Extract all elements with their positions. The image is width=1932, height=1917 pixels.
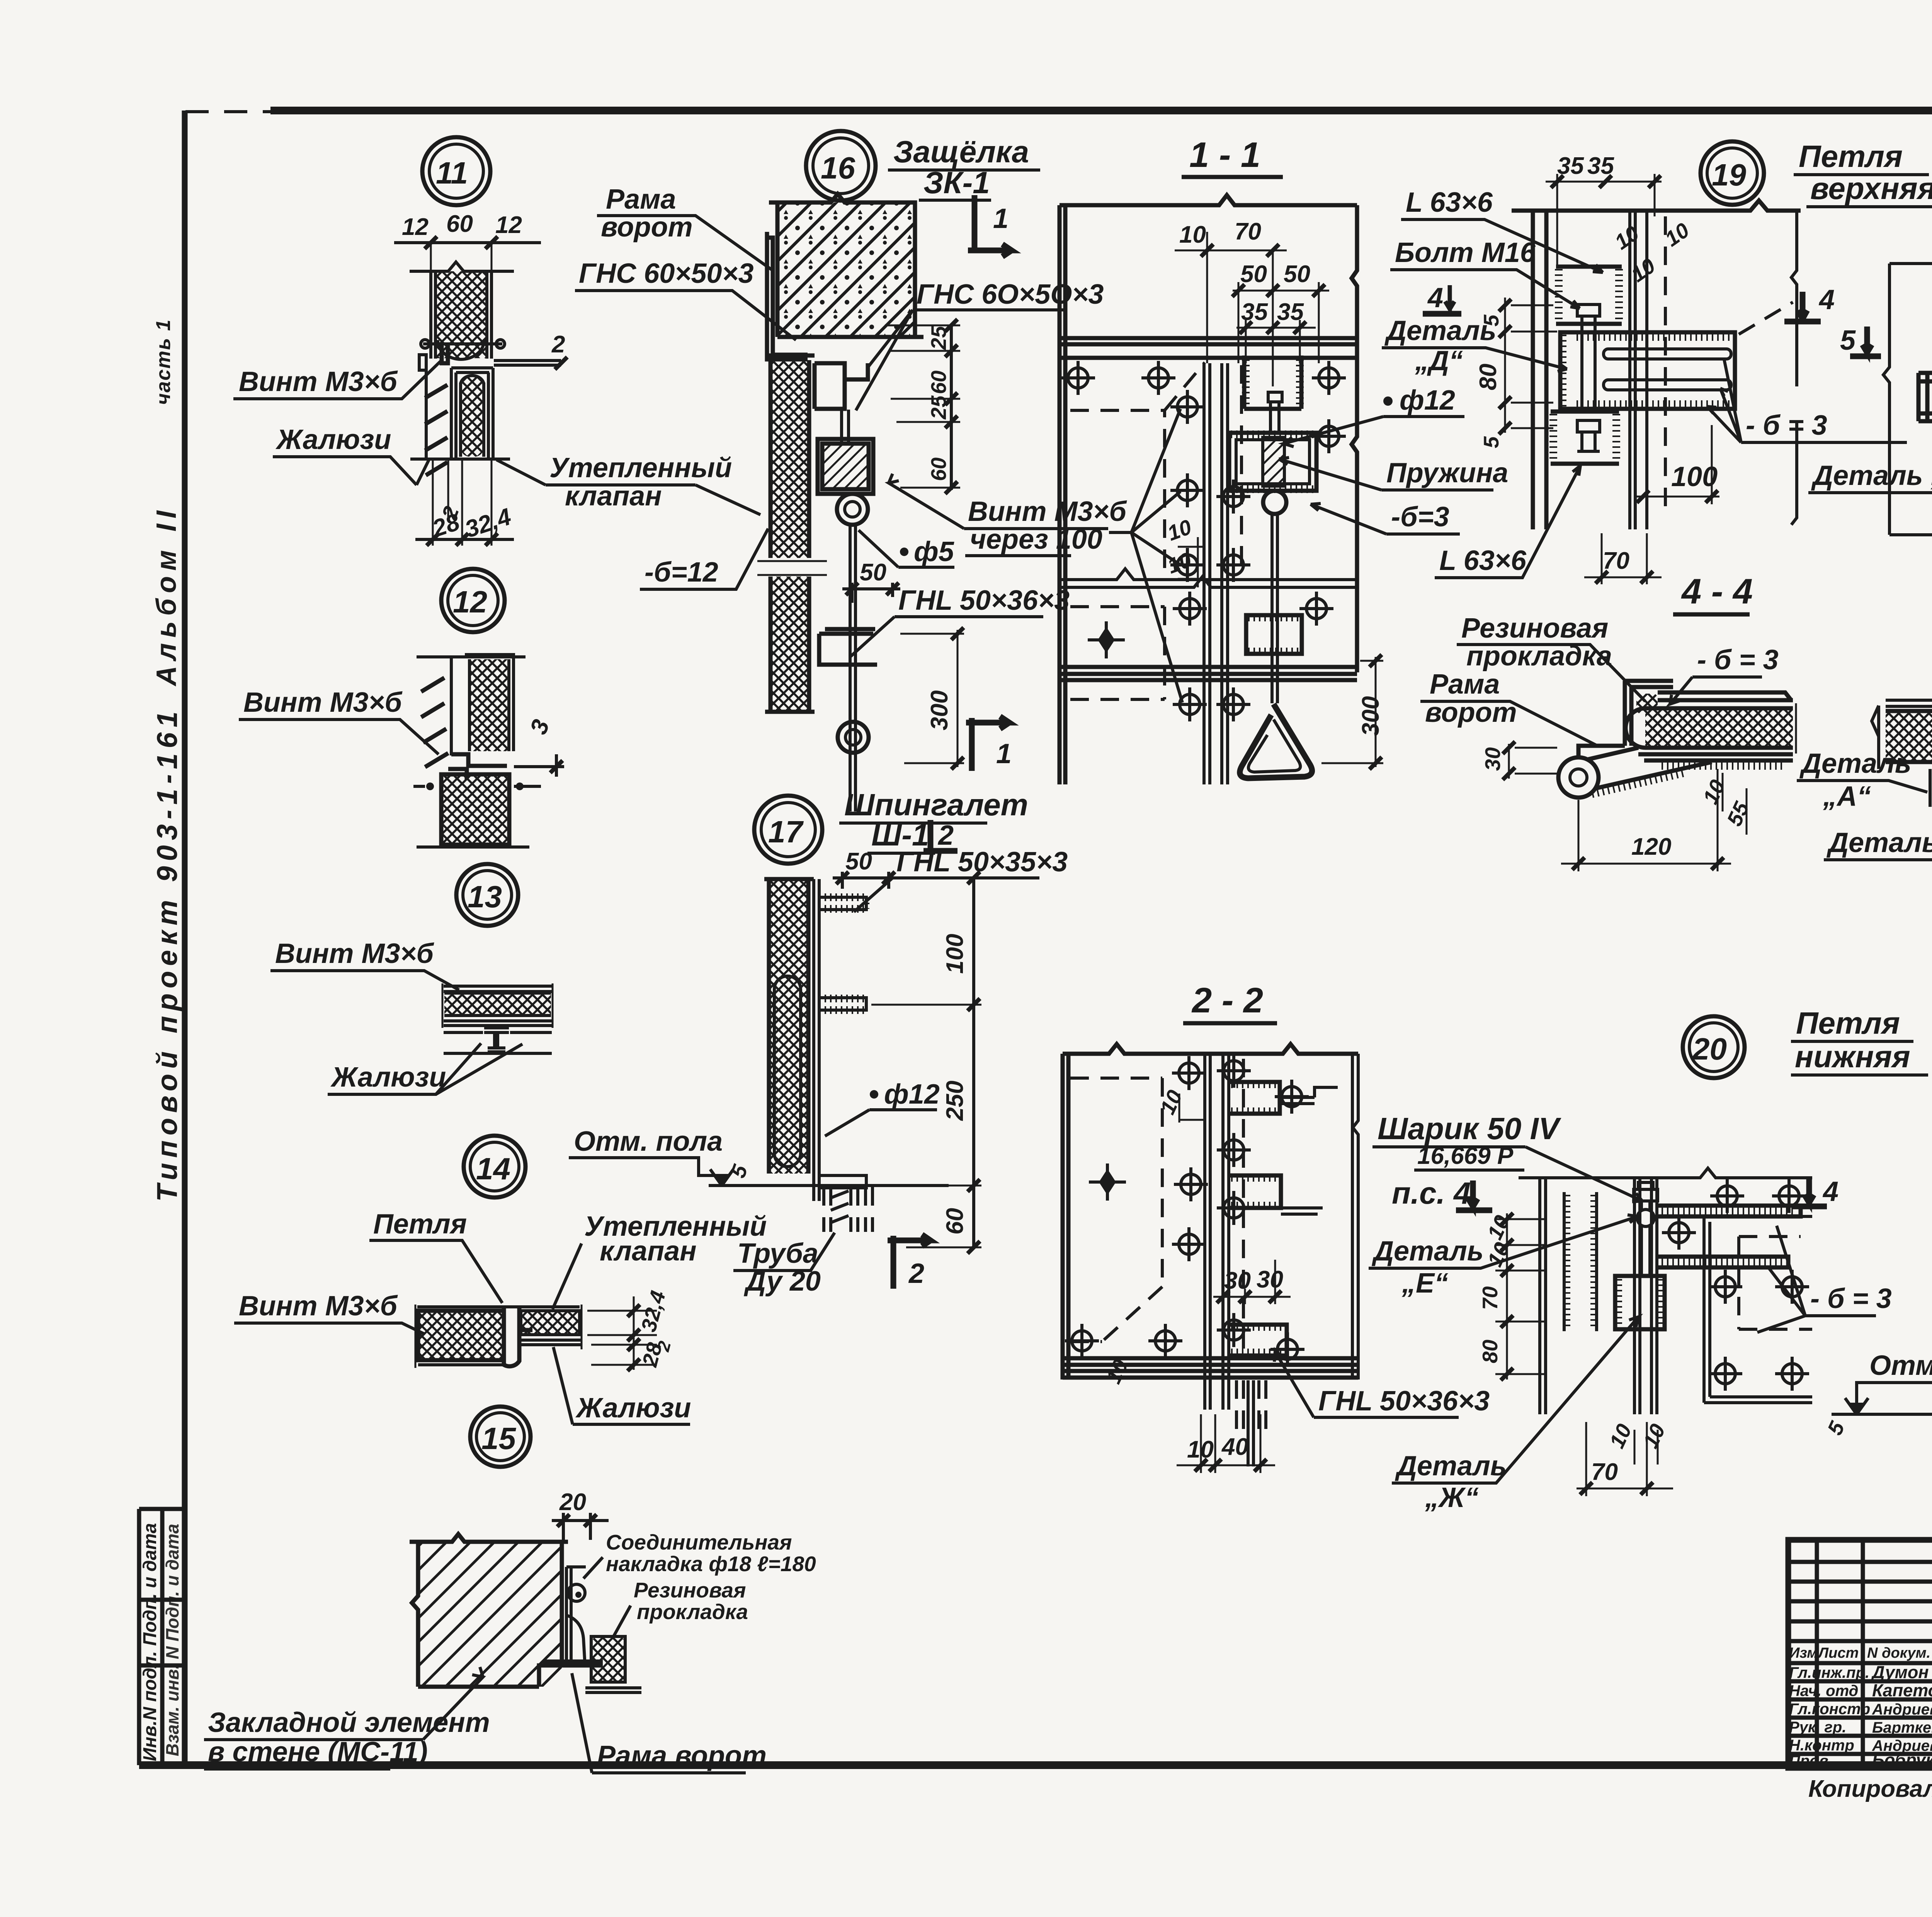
svg-text:300: 300: [926, 691, 953, 730]
shpingalet rod: [814, 879, 819, 1201]
svg-text:Закладной элемент: Закладной элемент: [208, 1707, 490, 1738]
4-4 insulated band: [1645, 708, 1793, 748]
svg-text:„Ж“: „Ж“: [1425, 1482, 1479, 1513]
svg-text:2: 2: [937, 820, 954, 851]
detail 16 insulated door panel lower: [770, 577, 809, 712]
dim 300 (d16): [900, 630, 964, 767]
svg-text:Лист: Лист: [1817, 1645, 1859, 1661]
section mark 2 (top, d17): [923, 820, 957, 851]
section 1-1 title: [1060, 135, 1508, 784]
detail 11 leaf top sheet with section 2 tick: [494, 361, 561, 365]
lower serrated box (d19): [1551, 412, 1619, 464]
latch bolt screw: [842, 410, 849, 444]
detail 15 callout circle: [204, 1407, 816, 1773]
svg-text:Гл.инж.пр.: Гл.инж.пр.: [1789, 1664, 1869, 1681]
svg-text:Инв.N подл. Подп. и дата: Инв.N подл. Подп. и дата: [140, 1523, 160, 1761]
svg-text:Рама ворот: Рама ворот: [597, 1740, 767, 1771]
detail 14 right dims 28 32 4: [587, 1296, 657, 1370]
d20 lower block Деталь Ж: [1615, 1276, 1665, 1329]
svg-text:клапан: клапан: [600, 1236, 697, 1267]
detail 12 callout circle: [239, 569, 564, 847]
svg-text:Капетов: Капетов: [1872, 1681, 1932, 1700]
detail 16 concrete lintel block: [777, 202, 915, 337]
floor line: [713, 1184, 949, 1187]
detail 17 callout circle: [569, 788, 1068, 1297]
4-4 hinge knuckle: [1558, 757, 1599, 798]
latch lower bracket: [1246, 615, 1302, 654]
detail 12 top line: [417, 655, 526, 658]
svg-text:Отм. пола: Отм. пола: [574, 1126, 723, 1157]
2-2 stile verticals: [1205, 1054, 1229, 1410]
sheet frame bottom border: [139, 1761, 1932, 1769]
svg-text:30: 30: [1481, 747, 1505, 771]
svg-text:Винт М3×б: Винт М3×б: [275, 938, 435, 969]
svg-text:-б=3: -б=3: [1391, 502, 1449, 532]
sheet frame left border: [182, 111, 188, 1765]
svg-text:Резиновая: Резиновая: [1461, 613, 1608, 644]
svg-text:80: 80: [1475, 364, 1502, 390]
detail 19 center stile lines: [1630, 211, 1647, 529]
svg-text:-б=12: -б=12: [645, 557, 718, 588]
svg-text:Рама: Рама: [1430, 669, 1500, 700]
latch channel profile: [815, 363, 868, 409]
ring lower: [838, 722, 869, 753]
view 21 left edge: [1883, 264, 1889, 535]
svg-text:накладка ф18 ℓ=180: накладка ф18 ℓ=180: [606, 1552, 816, 1576]
right dim chain 25 60 25 60: [950, 324, 953, 490]
2-2 pin bracket lower: [1229, 1325, 1287, 1356]
spring (hatched screw): [1263, 437, 1284, 486]
svg-text:Жалюзи: Жалюзи: [575, 1393, 691, 1424]
svg-text:Пров.: Пров.: [1789, 1752, 1833, 1769]
d20 top edge: [1519, 1168, 1812, 1178]
detail 12 jalousie diagonal slats: [421, 678, 448, 767]
svg-text:70: 70: [1591, 1459, 1618, 1485]
handle bar: [1918, 373, 1932, 421]
2-2 dashed pipe below: [1236, 1380, 1266, 1434]
latch slide block (hatched): [822, 444, 869, 489]
svg-text:15: 15: [481, 1421, 516, 1456]
svg-text:Шарик 50 IV: Шарик 50 IV: [1378, 1111, 1561, 1146]
section mark 2 (bottom, d17): [888, 1235, 930, 1289]
2-2 bolts: [1172, 1056, 1206, 1090]
svg-text:Жалюзи: Жалюзи: [275, 424, 391, 455]
svg-text:Петля: Петля: [373, 1209, 467, 1240]
section 1-1 top rail band: [1060, 338, 1357, 358]
detail 11 screw pin: [442, 344, 448, 363]
svg-text:20: 20: [1692, 1032, 1727, 1066]
svg-text:19: 19: [1712, 158, 1746, 192]
svg-text:L 63×6: L 63×6: [1406, 187, 1493, 218]
svg-text:„А“: „А“: [1823, 781, 1871, 812]
svg-text:60: 60: [942, 1208, 968, 1235]
view 21 top edge: [1889, 254, 1932, 264]
section mark 1 (bottom): [966, 716, 1009, 771]
2-2 pin bracket upper: [1229, 1082, 1280, 1114]
ring upper: [837, 494, 868, 525]
latch rod: [1272, 514, 1277, 703]
panel break squiggle: [757, 561, 827, 575]
detail 12 Z profile joint: [448, 754, 507, 780]
svg-text:5: 5: [1479, 436, 1503, 448]
lower dashed leaf: [1070, 607, 1165, 699]
svg-text:60: 60: [927, 370, 951, 394]
svg-text:N докум.: N докум.: [1867, 1645, 1930, 1661]
svg-text:часть 1: часть 1: [152, 319, 175, 405]
svg-text:Жалюзи: Жалюзи: [330, 1062, 446, 1093]
svg-text:Соединительная: Соединительная: [606, 1530, 792, 1554]
svg-text:50: 50: [845, 848, 872, 875]
svg-text:ГНL 50×36×3: ГНL 50×36×3: [1318, 1386, 1490, 1417]
svg-text:100: 100: [1671, 461, 1718, 492]
svg-text:Деталь: Деталь: [1384, 315, 1497, 346]
2-2 top edge: [1063, 1044, 1358, 1054]
svg-text:- б = 3: - б = 3: [1810, 1283, 1892, 1314]
svg-text:1: 1: [993, 203, 1009, 234]
4-4 bottom plates: [1638, 754, 1793, 760]
svg-text:Типовой проект 903-1-161: Типовой проект 903-1-161: [151, 706, 183, 1202]
section 1-1 left frame edges: [1060, 205, 1065, 784]
upper serrated box (d19): [1556, 267, 1622, 324]
svg-text:250: 250: [942, 1081, 968, 1121]
svg-text:ф5: ф5: [914, 536, 954, 567]
ГНL bracket profile: [819, 629, 877, 665]
svg-text:„Е“: „Е“: [1401, 1268, 1448, 1299]
detail 19 right break edge: [1791, 211, 1797, 525]
svg-text:Рук. гр.: Рук. гр.: [1789, 1719, 1846, 1736]
svg-text:Петля: Петля: [1799, 139, 1903, 173]
detail 14 left insulated band: [417, 1305, 580, 1308]
section mark 4 (top d19): [1784, 292, 1821, 321]
svg-text:прокладка: прокладка: [637, 1600, 748, 1624]
d20 lower arm: [1658, 1257, 1788, 1267]
svg-text:4 - 4: 4 - 4: [1681, 572, 1753, 611]
detail 15 gate frame angle + rubber: [566, 1567, 586, 1665]
latch rod: [850, 525, 855, 811]
2-2 step plates right: [1280, 1087, 1338, 1214]
rod guide brackets: [819, 897, 866, 909]
meeting stile vertical lines: [1204, 363, 1228, 784]
svg-text:ГНL 50×35×3: ГНL 50×35×3: [896, 847, 1068, 878]
svg-text:Копировал: Чубанова: Копировал: Чубанова: [1808, 1776, 1932, 1802]
svg-text:25: 25: [927, 395, 951, 420]
detail 15 rubber gasket hatched: [591, 1636, 625, 1682]
svg-text:Думон: Думон: [1871, 1662, 1929, 1682]
detail 11 top break line: [410, 262, 514, 271]
svg-text:Взам. инв. N Подп. и дата: Взам. инв. N Подп. и дата: [162, 1524, 182, 1756]
svg-text:Н.контр: Н.контр: [1789, 1737, 1854, 1754]
svg-text:ф12: ф12: [1400, 385, 1455, 416]
svg-text:ГНС 60×50×3: ГНС 60×50×3: [579, 258, 754, 289]
svg-text:Утепленный: Утепленный: [549, 452, 732, 483]
svg-text:ГНС 6О×5О×3: ГНС 6О×5О×3: [917, 279, 1104, 310]
svg-text:70: 70: [1478, 1286, 1502, 1310]
svg-text:16: 16: [821, 151, 855, 185]
svg-text:ГНL 50×36×3: ГНL 50×36×3: [898, 585, 1070, 616]
svg-text:12: 12: [495, 212, 522, 238]
svg-text:Винт М3×б: Винт М3×б: [239, 366, 398, 397]
svg-text:Деталь: Деталь: [1799, 748, 1912, 779]
latch spring box: [1229, 433, 1316, 491]
svg-text:ф12: ф12: [884, 1079, 940, 1110]
4-4 top plates: [1658, 692, 1793, 700]
svg-text:Винт М3×б: Винт М3×б: [239, 1291, 398, 1322]
svg-text:Пружина: Пружина: [1386, 458, 1508, 488]
detail 13 sandwich band: [444, 986, 552, 992]
detail 15 embedded corner angle: [539, 1565, 603, 1687]
section 4-4 title: [1420, 572, 1796, 871]
label ф12 (1-1): [1383, 396, 1393, 406]
svg-text:4: 4: [1822, 1176, 1838, 1207]
svg-text:Труба: Труба: [737, 1238, 818, 1269]
svg-text:Альбом II: Альбом II: [151, 505, 182, 687]
detail 13 lower plate with T stiffener: [444, 1032, 552, 1053]
svg-text:40: 40: [1221, 1434, 1248, 1460]
detail 21 callout circle: [1808, 141, 1932, 586]
detail 14 hinge knuckle: [504, 1307, 532, 1366]
svg-text:2: 2: [908, 1258, 924, 1289]
svg-text:10: 10: [1179, 221, 1206, 248]
left margin stamp box: [139, 1509, 185, 1765]
svg-text:Деталь: Деталь: [1371, 1236, 1484, 1267]
svg-text:4: 4: [1818, 284, 1835, 315]
d20 right panel: [1704, 1216, 1812, 1403]
svg-text:1 - 1: 1 - 1: [1189, 135, 1260, 175]
svg-text:Шпингалет: Шпингалет: [844, 788, 1028, 822]
bolt through hinge: [1582, 332, 1595, 409]
detail 14 callout circle: [234, 1136, 767, 1424]
4-4 left angle with rubber: [1625, 681, 1673, 746]
triangle pull handle: [1240, 704, 1312, 778]
title block left table verticals: [1817, 1540, 1932, 1768]
svg-text:верхняя: верхняя: [1810, 171, 1932, 206]
detail 11 upper insulated panel: [435, 271, 487, 358]
svg-text:Нач. отд: Нач. отд: [1789, 1682, 1858, 1699]
svg-text:L 63×6: L 63×6: [1439, 545, 1527, 576]
detail 11 bottom edge: [410, 458, 510, 461]
detail 11 lower valve insulation: [461, 376, 484, 457]
section mark 1 (top): [968, 195, 1012, 257]
svg-text:1: 1: [996, 738, 1012, 769]
svg-text:- б = 3: - б = 3: [1697, 645, 1779, 675]
svg-text:30: 30: [1257, 1266, 1283, 1293]
svg-text:50: 50: [1240, 261, 1267, 287]
svg-text:25: 25: [927, 325, 951, 350]
hinge pins: [1604, 349, 1731, 359]
dim 300 (1-1): [1321, 657, 1383, 767]
svg-text:50: 50: [860, 559, 886, 586]
section 5-5 bottom view: [1797, 616, 1932, 860]
svg-text:- б = 3: - б = 3: [1746, 410, 1827, 441]
d20 left dim chain 10 10 70 80: [1495, 1213, 1546, 1379]
d20 center post: [1634, 1178, 1657, 1414]
detail 13 callout circle: [270, 864, 553, 1094]
hinge mid body (d19): [1560, 332, 1735, 409]
svg-text:50: 50: [1284, 261, 1310, 287]
2-2 dashed leaf: [1070, 1078, 1162, 1342]
detail 11 mid joint line: [423, 342, 502, 345]
detail 14 right insulated band: [521, 1311, 580, 1335]
svg-text:70: 70: [1235, 218, 1261, 245]
section 1-1 right edge: [1352, 205, 1357, 672]
view 21 bottom break: [1889, 526, 1932, 535]
right dim chain 100 250 60: [972, 876, 975, 1249]
door leaf dashed outline: [1070, 362, 1205, 568]
svg-text:Гл.констр: Гл.констр: [1789, 1701, 1870, 1718]
svg-text:100: 100: [942, 934, 968, 974]
bottom rail band: [1060, 667, 1357, 680]
gate frame angle at wall: [767, 232, 808, 359]
detail 11 lower valve channel: [451, 368, 493, 459]
svg-text:Отм.пола: Отм.пола: [1869, 1350, 1932, 1381]
dim 30 (4-4): [1509, 744, 1559, 779]
svg-text:Болт М16: Болт М16: [1395, 237, 1536, 268]
detail 11 callout circle: [233, 137, 760, 546]
dims 5 80 5 left (d19): [1505, 298, 1557, 433]
svg-text:Барткевич: Барткевич: [1872, 1719, 1932, 1736]
detail 11 bottom dims 28 32 4: [433, 461, 492, 546]
2-2 bottom rail: [1063, 1358, 1358, 1378]
svg-text:4: 4: [1427, 282, 1443, 313]
label ф5: [900, 548, 908, 556]
detail 20 callout circle: [1369, 1006, 1932, 1513]
svg-text:12: 12: [453, 585, 487, 619]
svg-text:Бобрук: Бобрук: [1872, 1750, 1932, 1770]
latch upper bracket (serrated): [1244, 356, 1301, 409]
d20 hinge pin and ball: [1634, 1182, 1658, 1201]
svg-text:Петля: Петля: [1796, 1006, 1900, 1040]
svg-text:13: 13: [468, 879, 502, 914]
svg-text:5: 5: [1840, 325, 1856, 356]
d20 upper arm (serrated strip): [1658, 1206, 1801, 1216]
detail 16 insulated door panel upper: [770, 360, 809, 558]
latch bolt stem: [1268, 392, 1282, 433]
5-5 top plates: [1886, 700, 1932, 706]
detail 12 lower insulated panel: [441, 774, 509, 845]
svg-text:Винт М3×б: Винт М3×б: [243, 687, 403, 718]
title block outer frame: [1788, 1540, 1932, 1815]
svg-text:2: 2: [551, 331, 565, 358]
svg-text:Винт М3×б: Винт М3×б: [968, 496, 1128, 527]
svg-text:11: 11: [436, 156, 468, 190]
bolt M16 head: [1577, 304, 1600, 332]
svg-text:80: 80: [1478, 1339, 1502, 1363]
detail 16 callout circle: [575, 131, 1128, 811]
detail 19 left post: [1533, 211, 1546, 529]
5-5 left insulated band: [1886, 711, 1932, 762]
label ф12 (d17): [870, 1090, 878, 1099]
svg-text:Андриевский: Андриевский: [1872, 1701, 1932, 1718]
2-2 right edges: [1352, 1054, 1358, 1379]
detail 19 top edge: [1512, 201, 1801, 211]
sheet frame top border: [270, 107, 1932, 114]
detail 15 wall block (diag hatch): [418, 1542, 562, 1687]
svg-text:нижняя: нижняя: [1795, 1039, 1910, 1074]
detail 11 jalousie slats: [425, 359, 428, 459]
detail 12 upper insulated panel: [469, 659, 509, 751]
svg-text:60: 60: [446, 211, 473, 237]
ring under spring box: [1263, 491, 1286, 514]
title block left table horizontals: [1788, 1562, 1932, 1754]
d20 welded column (serrated): [1564, 1192, 1597, 1331]
pipe below floor (dashed): [824, 1187, 872, 1232]
svg-text:14: 14: [476, 1152, 510, 1186]
svg-text:2 - 2: 2 - 2: [1191, 981, 1263, 1020]
svg-text:20: 20: [559, 1489, 586, 1516]
svg-text:Рама: Рама: [606, 184, 676, 215]
leader fan from Винт М3х6 через 100 to bolts: [1109, 409, 1182, 703]
svg-text:Защёлка: Защёлка: [893, 134, 1029, 169]
detail 19 callout circle: [1382, 139, 1932, 584]
detail 11 dim line: [394, 241, 541, 244]
svg-text:17: 17: [768, 815, 804, 849]
svg-text:Деталь: Деталь: [1395, 1451, 1507, 1482]
svg-text:Деталь „В“: Деталь „В“: [1811, 460, 1932, 491]
svg-text:„Д“: „Д“: [1415, 345, 1463, 376]
section 1-1 top edge with break: [1060, 195, 1357, 205]
svg-text:Изм: Изм: [1789, 1645, 1818, 1661]
section 2-2 title: [1063, 981, 1490, 1473]
svg-text:300: 300: [1357, 696, 1384, 736]
d20 left panel edge: [1540, 1178, 1546, 1414]
detail 17 insulated panel: [769, 879, 808, 1174]
svg-text:Резиновая: Резиновая: [634, 1578, 746, 1602]
svg-text:120: 120: [1631, 833, 1671, 860]
bolts section 1-1: [1061, 361, 1095, 395]
svg-text:60: 60: [927, 457, 951, 481]
2-2 left edges: [1063, 1054, 1068, 1379]
svg-text:12: 12: [402, 214, 429, 240]
svg-text:Деталь „В“: Деталь „В“: [1826, 827, 1932, 858]
detail 11 left angle bracket: [419, 355, 426, 370]
2-2 pin bracket mid: [1229, 1175, 1281, 1208]
mid break lines: [1060, 569, 1357, 587]
svg-text:п.с. 4: п.с. 4: [1392, 1176, 1471, 1210]
